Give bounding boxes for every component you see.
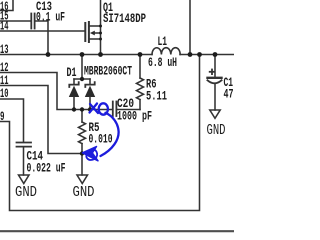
svg-text:D1: D1 [67, 66, 77, 80]
svg-text:SI7148DP: SI7148DP [103, 12, 146, 26]
svg-text:0.1 uF: 0.1 uF [36, 11, 65, 25]
svg-text:5.11: 5.11 [146, 90, 167, 104]
svg-text:470: 470 [224, 88, 235, 102]
svg-text:6.8 uH: 6.8 uH [148, 56, 177, 70]
svg-text:0.010: 0.010 [89, 133, 113, 147]
svg-text:0.022 uF: 0.022 uF [27, 162, 66, 176]
svg-text:GND: GND [15, 185, 37, 201]
svg-text:14: 14 [0, 20, 8, 34]
svg-text:GND: GND [73, 185, 95, 201]
svg-text:MBRB2060CT: MBRB2060CT [84, 65, 132, 79]
svg-text:13: 13 [0, 43, 8, 57]
svg-text:GND: GND [207, 123, 226, 139]
svg-text:10: 10 [0, 87, 8, 101]
svg-text:1000 pF: 1000 pF [117, 110, 152, 124]
svg-text:L1: L1 [158, 35, 168, 49]
svg-text:9: 9 [0, 110, 5, 124]
